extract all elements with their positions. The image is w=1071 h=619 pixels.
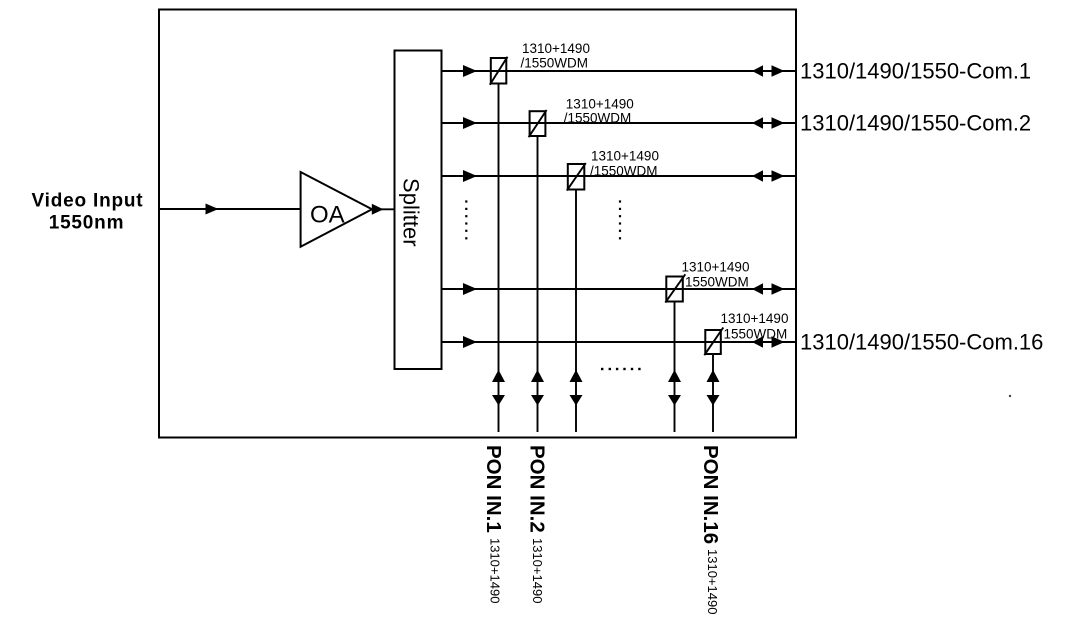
outer enclosure box (159, 10, 796, 438)
svg-text:PON IN.2: PON IN.2 (526, 445, 549, 533)
wire: output line 2 (442, 122, 797, 124)
svg-text:1310/1490/1550-Com.2: 1310/1490/1550-Com.2 (800, 110, 1031, 135)
WDM coupler 2 (529, 110, 547, 432)
svg-text:1310+1490: 1310+1490 (682, 260, 750, 275)
vertical dots mid column (619, 200, 621, 239)
arrowhead line 3 (463, 170, 477, 182)
stray speck (1009, 395, 1011, 397)
label WDM 1 (521, 41, 590, 71)
label WDM 5 (721, 311, 789, 342)
bidirectional vertical arrow col 2 (531, 370, 544, 406)
WDM coupler 1 (490, 57, 508, 432)
bidirectional vertical arrow col 5 (707, 370, 720, 406)
svg-text:Splitter: Splitter (399, 178, 424, 246)
bidirectional arrow line 5 (752, 336, 785, 348)
wire: output line 1 (442, 70, 797, 72)
arrowhead line 1 (463, 65, 477, 77)
bidirectional arrow line 2 (752, 117, 785, 129)
bidirectional vertical arrow col 1 (492, 370, 505, 406)
svg-text:1310+1490: 1310+1490 (487, 538, 502, 603)
label WDM 4 (682, 260, 750, 290)
label Video Input 1550nm (32, 191, 144, 234)
svg-text:1310+1490: 1310+1490 (530, 538, 545, 603)
svg-text:1550WDM: 1550WDM (685, 274, 749, 289)
svg-text:1310+1490: 1310+1490 (705, 549, 720, 614)
svg-text:1310+1490: 1310+1490 (566, 96, 634, 111)
bidirectional vertical arrow col 4 (668, 370, 681, 406)
wire: video input line (159, 208, 301, 210)
svg-text:1310+1490: 1310+1490 (591, 148, 659, 163)
wire: OA to splitter (371, 208, 395, 210)
svg-text:/1550WDM: /1550WDM (564, 110, 632, 125)
svg-text:/1550WDM: /1550WDM (590, 163, 658, 178)
svg-text:1310/1490/1550-Com.16: 1310/1490/1550-Com.16 (800, 329, 1043, 354)
bidirectional arrow line 3 (752, 170, 785, 182)
WDM coupler 5 (704, 328, 723, 433)
wire: output line 5 (442, 341, 797, 343)
horizontal dots bottom (601, 368, 641, 370)
arrowhead line 4 (463, 283, 477, 295)
svg-text:1310/1490/1550-Com.1: 1310/1490/1550-Com.1 (800, 58, 1031, 83)
label WDM 2 (564, 96, 634, 125)
arrowhead line 5 (463, 336, 477, 348)
WDM coupler 3 (567, 163, 586, 432)
arrowhead on input wire (206, 204, 219, 215)
bidirectional vertical arrow col 3 (570, 370, 583, 406)
svg-text:1550nm: 1550nm (49, 212, 125, 233)
svg-text:OA: OA (310, 201, 345, 228)
wire: output line 3 (442, 175, 797, 177)
vertical dots after splitter (465, 200, 467, 239)
svg-text:1310+1490: 1310+1490 (522, 41, 590, 56)
bidirectional arrow line 1 (752, 65, 785, 77)
svg-text:/1550WDM: /1550WDM (521, 55, 589, 70)
svg-text:1310+1490: 1310+1490 (721, 311, 789, 326)
label WDM 3 (590, 148, 659, 178)
arrowhead OA to splitter (372, 204, 384, 215)
splitter box (395, 51, 442, 370)
op-amp style amplifier OA (301, 172, 372, 247)
svg-text:Video Input: Video Input (32, 191, 144, 212)
arrowhead line 2 (463, 117, 477, 129)
bidirectional arrow line 4 (752, 283, 785, 295)
svg-text:PON IN.16: PON IN.16 (699, 445, 722, 544)
svg-text:PON IN.1: PON IN.1 (482, 445, 505, 533)
WDM coupler 4 (665, 274, 685, 432)
wire: output line 4 (442, 288, 797, 290)
